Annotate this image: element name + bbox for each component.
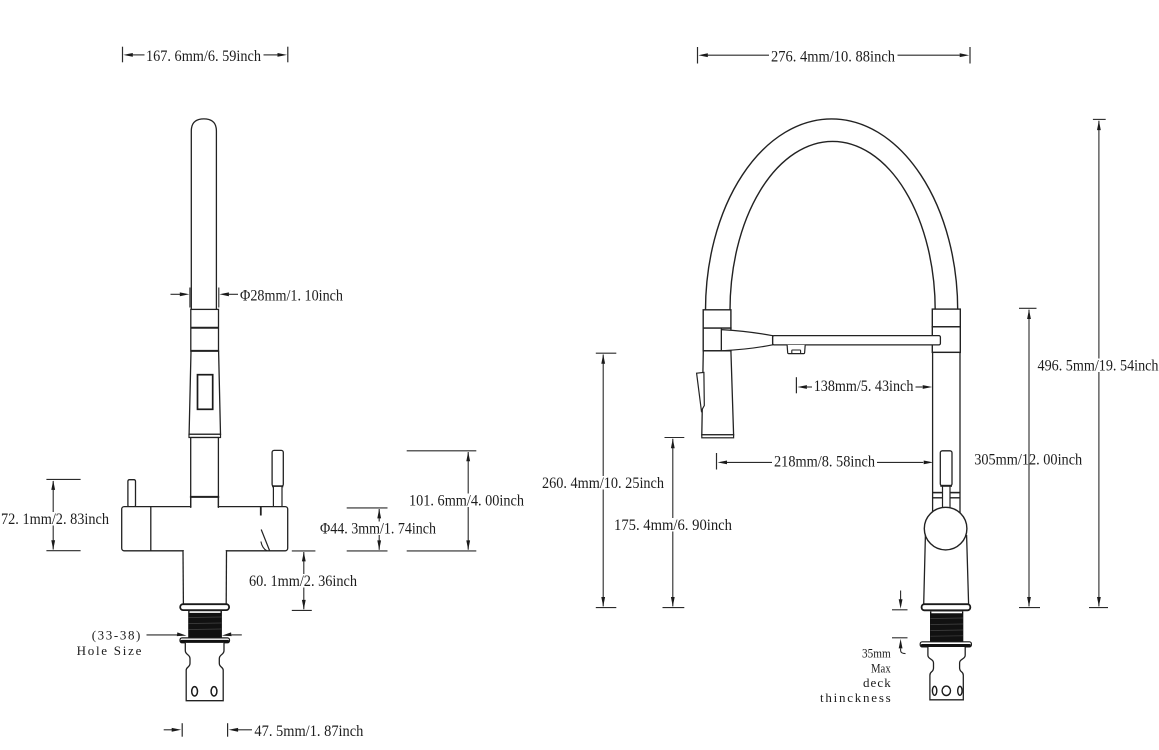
right view: sprayer holder collar — [703, 310, 731, 328]
right view: riser collar — [932, 309, 960, 327]
left view: right handle lever — [272, 450, 283, 506]
left view: housing button — [198, 375, 213, 410]
svg-text:47. 5mm/1. 87inch: 47. 5mm/1. 87inch — [254, 723, 363, 740]
right view: sprayer lever blade — [697, 372, 705, 410]
right view: height dimension 260.4mm/10.25inch — [541, 353, 665, 607]
right view: joint band lines — [933, 493, 960, 498]
svg-text:218mm/8. 58inch: 218mm/8. 58inch — [774, 454, 875, 471]
right view: horizontal span dimension 276.4mm/10.88inch — [698, 47, 971, 65]
svg-text:138mm/5. 43inch: 138mm/5. 43inch — [814, 378, 914, 395]
right view: body cone — [924, 536, 969, 605]
svg-text:Max: Max — [871, 660, 891, 675]
svg-text:260. 4mm/10. 25inch: 260. 4mm/10. 25inch — [542, 475, 664, 492]
left view: base width dimension 47.5mm/1.87inch — [164, 723, 364, 740]
svg-text:72. 1mm/2. 83inch: 72. 1mm/2. 83inch — [1, 511, 109, 528]
left view: spout collar rings — [191, 309, 219, 351]
left view: body-to-deck dimension 60.1mm/2.36inch — [248, 551, 358, 611]
right view: riser pipe — [933, 352, 960, 514]
left view: housing bottom lip — [189, 434, 221, 437]
svg-text:deck: deck — [863, 675, 891, 690]
left view: cross body with handle blocks — [122, 498, 288, 553]
right view: spray wand bar — [773, 335, 941, 345]
right view: deck thickness note text — [820, 645, 891, 705]
right view: height dimension 175.4mm/6.90inch — [613, 438, 733, 608]
right view: reach dimension 218mm/8.58inch — [717, 453, 934, 471]
right view: deck flange — [922, 604, 971, 610]
left view: base trapezoid — [183, 550, 227, 604]
left view: left handle lever — [128, 480, 136, 507]
left view: spout diameter dimension 28mm/1.10inch — [171, 287, 344, 307]
right view: sprayer head body — [702, 351, 734, 435]
right view: wand length dimension 138mm/5.43inch — [796, 377, 932, 395]
right view: deck thickness dimension 35mm — [892, 591, 908, 654]
left view: mounting washer — [180, 638, 230, 643]
right view: handle lever — [940, 451, 952, 486]
svg-text:175. 4mm/6. 90inch: 175. 4mm/6. 90inch — [614, 517, 732, 534]
svg-text:35mm: 35mm — [862, 645, 891, 660]
svg-text:276. 4mm/10. 88inch: 276. 4mm/10. 88inch — [771, 48, 895, 65]
right view: riser upper section — [932, 327, 960, 353]
right view: height dimension 305mm/12.00inch — [974, 308, 1082, 607]
right view: ball joint — [924, 507, 967, 550]
left view: body diameter dimension 44.3mm/1.74inch — [319, 508, 437, 551]
svg-text:(33-38): (33-38) — [92, 628, 141, 643]
left view: deck flange — [180, 604, 229, 610]
svg-text:Φ28mm/1. 10inch: Φ28mm/1. 10inch — [240, 287, 343, 304]
right view: outer hose arc — [706, 119, 958, 310]
right view: overall height dimension 496.5mm/19.54inch — [1037, 119, 1159, 607]
left view: horizontal span dimension 167.6mm/6.59inch — [123, 47, 288, 65]
left view: threaded shank (black) — [188, 611, 222, 639]
svg-text:167. 6mm/6. 59inch: 167. 6mm/6. 59inch — [146, 48, 261, 65]
right view: handle stem — [943, 486, 951, 508]
right view: docking funnel nozzle — [721, 330, 772, 351]
svg-text:Φ44. 3mm/1. 74inch: Φ44. 3mm/1. 74inch — [320, 521, 436, 538]
left view: spout tube — [191, 119, 216, 310]
right view: mounting washer — [920, 642, 971, 647]
left view: hole size leader and note (33-38) Hole Size — [77, 628, 242, 659]
svg-text:101. 6mm/4. 00inch: 101. 6mm/4. 00inch — [409, 492, 524, 509]
svg-text:thinckness: thinckness — [820, 690, 891, 705]
left view: handle housing body — [189, 351, 220, 434]
left view: neck column — [190, 438, 219, 508]
right view: supply shank with hose holes — [928, 647, 965, 700]
right view: wand clip tab — [787, 345, 805, 354]
left view: spout-top-to-body dimension 101.6mm/4.00inch — [407, 451, 525, 551]
svg-text:60. 1mm/2. 36inch: 60. 1mm/2. 36inch — [249, 573, 357, 590]
right view: threaded shank (black) — [930, 611, 963, 642]
right view: sprayer head bottom lip — [702, 435, 734, 438]
right view: inner hose arc — [730, 141, 935, 310]
svg-text:305mm/12. 00inch: 305mm/12. 00inch — [974, 452, 1082, 469]
left view: handle height dimension 72.1mm/2.83inch — [0, 479, 110, 550]
right view: sprayer upper section — [703, 328, 731, 351]
left view: supply shank with hose holes — [185, 643, 224, 701]
svg-text:496. 5mm/19. 54inch: 496. 5mm/19. 54inch — [1038, 358, 1159, 375]
